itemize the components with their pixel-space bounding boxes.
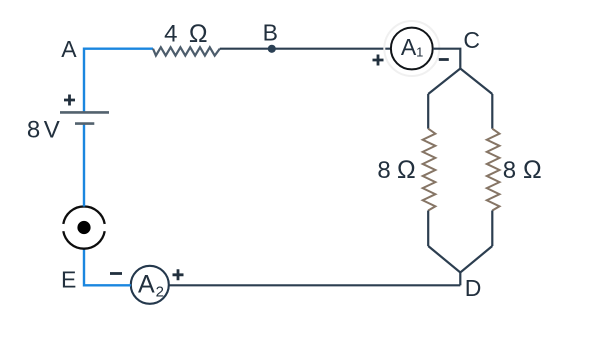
right branch bottom wire (491, 211, 493, 247)
resistor R3 8ohm (right, vertical zigzag) (487, 129, 500, 211)
A1 minus sign (439, 58, 449, 61)
lamp center dot (77, 221, 90, 234)
ammeter A1 (391, 28, 433, 70)
svg-text:2: 2 (156, 284, 164, 301)
svg-text:8: 8 (27, 117, 40, 144)
wire E to A2 (blue) (84, 249, 131, 286)
svg-text:C: C (463, 27, 480, 53)
node B junction dot (268, 45, 276, 53)
ammeter A1 halo (384, 21, 439, 76)
wire A to resistor (blue, top-left) (84, 49, 153, 113)
svg-text:8: 8 (377, 157, 390, 184)
ammeter A2 (131, 266, 169, 304)
lamp / plug key circle (63, 206, 104, 248)
A2 minus sign (110, 272, 122, 275)
svg-text:A: A (138, 271, 155, 299)
diamond top diagonals from C (428, 69, 492, 95)
left branch bottom wire (427, 211, 429, 247)
left branch top wire (427, 94, 429, 129)
battery long plate (60, 111, 109, 114)
svg-text:D: D (465, 275, 482, 301)
svg-text:V: V (44, 117, 60, 144)
svg-text:Ω: Ω (189, 20, 208, 48)
svg-text:B: B (263, 19, 278, 45)
svg-text:A: A (61, 36, 77, 62)
svg-text:8: 8 (503, 157, 516, 184)
wire A1 to C corner (433, 49, 460, 69)
svg-text:1: 1 (416, 45, 423, 60)
battery plus sign (64, 95, 75, 106)
wire battery to lamp (blue) (83, 124, 85, 207)
svg-text:Ω: Ω (397, 156, 416, 184)
battery short plate (75, 122, 94, 125)
svg-text:4: 4 (164, 20, 177, 47)
svg-text:Ω: Ω (523, 156, 542, 184)
resistor R1 4ohm zigzag (153, 47, 220, 55)
A2 plus sign (173, 269, 184, 280)
wire resistor to ammeter A1 (220, 48, 391, 50)
wire D junction down (459, 273, 461, 286)
diamond bottom diagonals to D (428, 246, 492, 273)
svg-text:E: E (61, 266, 76, 292)
svg-text:A: A (401, 34, 417, 60)
resistor R2 8ohm (left, vertical zigzag) (423, 129, 436, 211)
right branch top wire (491, 94, 493, 129)
bottom wire D to ammeter A2 (169, 284, 461, 286)
A1 plus sign (373, 55, 384, 66)
